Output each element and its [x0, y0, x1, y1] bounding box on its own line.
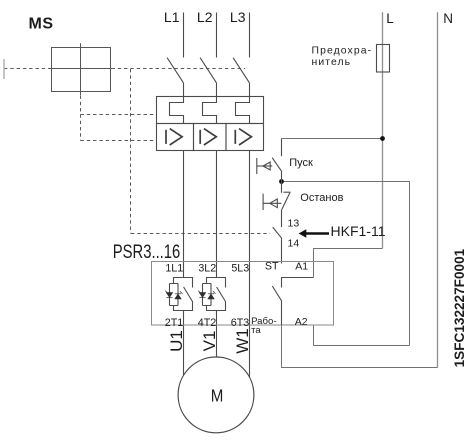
svg-text:Предохра-: Предохра- — [312, 45, 373, 56]
svg-text:13: 13 — [288, 218, 300, 230]
svg-text:3L2: 3L2 — [198, 262, 216, 274]
svg-text:1SFC132227F0001: 1SFC132227F0001 — [452, 248, 467, 367]
svg-text:1L1: 1L1 — [165, 262, 183, 274]
svg-text:V1: V1 — [200, 331, 219, 352]
svg-text:14: 14 — [288, 238, 300, 250]
svg-text:Останов: Останов — [300, 192, 343, 204]
svg-text:M: M — [211, 385, 224, 406]
svg-text:W1: W1 — [233, 328, 252, 354]
svg-text:5L3: 5L3 — [231, 262, 249, 274]
svg-text:L3: L3 — [230, 9, 246, 25]
svg-text:L: L — [386, 11, 394, 26]
svg-text:нитель: нитель — [312, 57, 352, 68]
svg-text:HKF1-11: HKF1-11 — [331, 223, 386, 239]
svg-text:MS: MS — [29, 16, 54, 33]
svg-text:N: N — [443, 11, 453, 26]
svg-text:A2: A2 — [295, 316, 308, 328]
svg-text:A1: A1 — [295, 261, 308, 273]
svg-text:PSR3...16: PSR3...16 — [113, 241, 180, 262]
svg-text:L2: L2 — [197, 9, 213, 25]
svg-text:U1: U1 — [167, 330, 186, 352]
svg-text:Пуск: Пуск — [289, 157, 313, 169]
svg-text:L1: L1 — [164, 9, 180, 25]
svg-text:6T3: 6T3 — [231, 317, 249, 329]
svg-text:4T2: 4T2 — [198, 317, 216, 329]
svg-text:та: та — [251, 325, 261, 336]
svg-text:2T1: 2T1 — [165, 317, 183, 329]
svg-text:ST: ST — [265, 261, 279, 273]
